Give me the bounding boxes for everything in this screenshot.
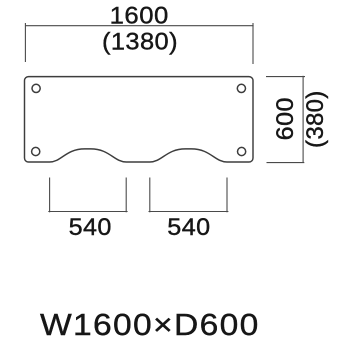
dimension 600: bottom extension line <box>267 162 305 164</box>
dimension 600: vertical line <box>302 76 304 163</box>
hole top-right <box>237 84 245 92</box>
hole top-left <box>32 84 40 92</box>
svg-text:1600: 1600 <box>110 3 169 29</box>
desk top outline with two scalloped front cutouts <box>25 77 254 162</box>
dimension 540 right: left tick <box>149 178 151 213</box>
dimension 540 right: right tick <box>226 178 228 213</box>
svg-text:600: 600 <box>273 97 299 140</box>
dimension 600: top extension line <box>266 76 305 78</box>
hole bottom-left <box>32 147 40 155</box>
dimension 540 left: right tick <box>125 178 127 213</box>
dimension 540 right: horizontal line <box>149 211 229 213</box>
svg-text:540: 540 <box>69 214 112 240</box>
dimension 540 left: left tick <box>49 178 51 213</box>
dimension 540 left: horizontal line <box>48 211 127 213</box>
dimension 1600: left extension tick <box>24 23 26 62</box>
svg-text:W1600×D600: W1600×D600 <box>40 307 260 342</box>
dimension 1600: horizontal line <box>25 25 253 27</box>
dimension 1600: right extension tick <box>252 23 254 64</box>
svg-text:540: 540 <box>167 214 210 240</box>
svg-text:(1380): (1380) <box>102 29 178 55</box>
svg-text:(380): (380) <box>302 90 329 148</box>
hole bottom-right <box>238 147 246 155</box>
